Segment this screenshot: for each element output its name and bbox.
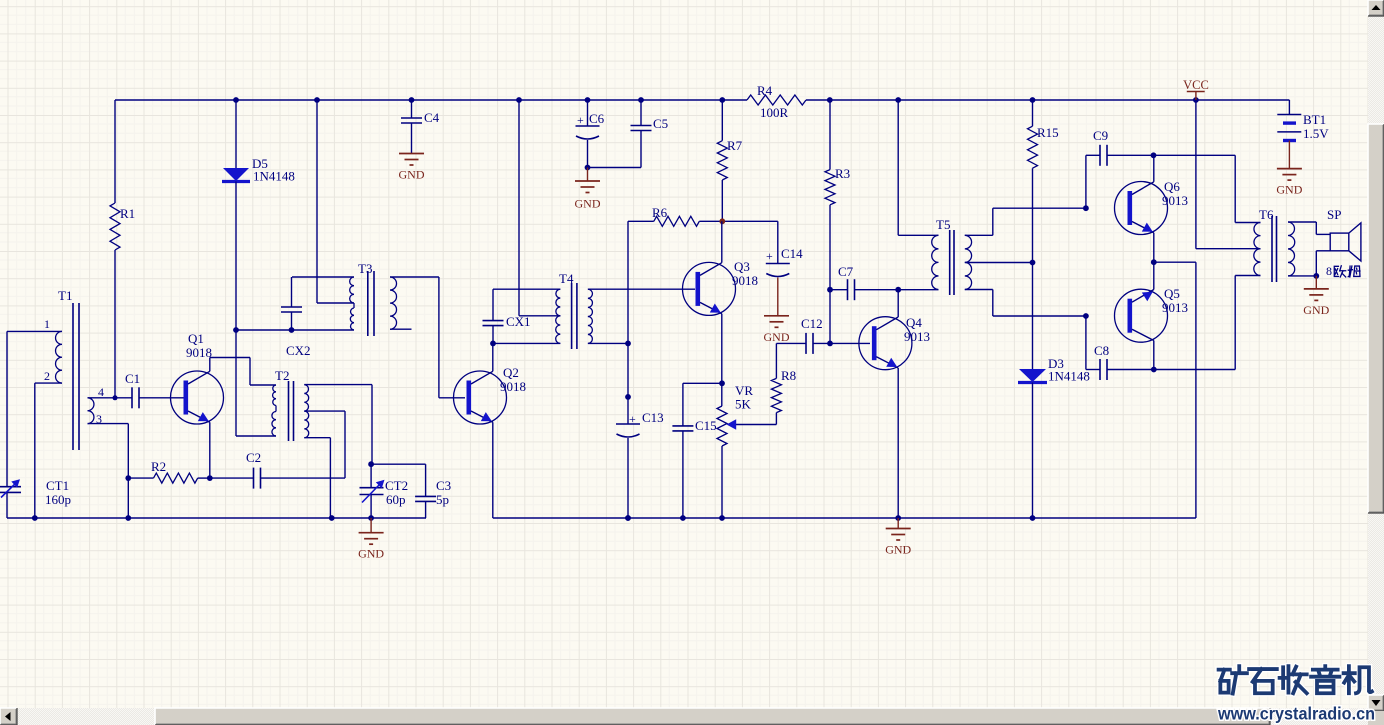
svg-text:Q1: Q1 bbox=[188, 331, 204, 346]
wire R3 to C7 node bbox=[829, 205, 831, 290]
scrollbar down button bbox=[1368, 695, 1384, 711]
svg-text:C13: C13 bbox=[642, 410, 664, 425]
diode D5 bbox=[223, 168, 249, 181]
wire R15 to D3 bbox=[1032, 168, 1034, 369]
watermark big text bbox=[1219, 666, 1247, 693]
capacitor C6 bbox=[587, 100, 589, 126]
transformer T1 bbox=[72, 303, 74, 450]
svg-text:Q2: Q2 bbox=[503, 365, 519, 380]
transformer T5 bbox=[949, 230, 951, 295]
node Q3 collector bias junction (dark red) bbox=[719, 218, 725, 224]
potentiometer VR bbox=[717, 406, 727, 446]
svg-text:GND: GND bbox=[399, 168, 425, 182]
capacitor CT1 (variable) bbox=[0, 486, 21, 488]
svg-text:C9: C9 bbox=[1093, 128, 1108, 143]
wire rail corner to R1 bbox=[114, 100, 116, 203]
svg-text:+: + bbox=[629, 412, 636, 426]
svg-text:GND: GND bbox=[358, 547, 384, 561]
svg-text:9013: 9013 bbox=[1162, 300, 1188, 315]
node Q6 base junction bbox=[1083, 205, 1089, 211]
speaker SP bbox=[1330, 233, 1349, 251]
svg-text:4: 4 bbox=[98, 385, 104, 399]
wire C7 node to Q4 base node bbox=[829, 290, 831, 344]
resistor R7 bbox=[717, 141, 727, 180]
wire C4 to ground bbox=[411, 123, 413, 154]
ground GND under C4 bbox=[399, 153, 424, 155]
node C7 junctions bbox=[827, 287, 833, 293]
wire D5 to CX2 bus bbox=[235, 182, 237, 331]
svg-text:CT2: CT2 bbox=[385, 478, 408, 493]
wire rail drop to T5 left top bbox=[897, 100, 899, 235]
wire Q5 emitter up bbox=[1153, 262, 1155, 289]
wire R3 node to C7 bbox=[830, 289, 848, 291]
wire R6 right to node bbox=[699, 220, 722, 222]
wire Q4 emitter down to bus bbox=[897, 368, 899, 518]
svg-text:GND: GND bbox=[885, 543, 911, 557]
capacitor CX2 bbox=[291, 277, 293, 307]
ground GND under CT2 bbox=[359, 532, 384, 534]
wire T6 right top to speaker bbox=[1288, 221, 1316, 223]
wire T5 center tap to R15 line bbox=[965, 262, 1033, 264]
svg-text:1: 1 bbox=[44, 317, 50, 331]
wire T1 pin2 bbox=[35, 382, 62, 384]
wire Q3 collector up bbox=[721, 221, 723, 262]
resistor R8 bbox=[771, 378, 781, 412]
capacitor C12 bbox=[805, 333, 807, 354]
wire C8 left up to Q5 base node bbox=[1086, 369, 1100, 371]
wire bottom bus (right segment) bbox=[493, 517, 1196, 519]
resistor R15 bbox=[1028, 126, 1038, 168]
svg-text:R8: R8 bbox=[781, 368, 796, 383]
wire bus ground stem bbox=[897, 518, 899, 529]
node C15 tap junction bbox=[719, 380, 725, 386]
wire CT2 node to ground bbox=[370, 518, 372, 533]
node R2 junctions bbox=[125, 475, 131, 481]
wire CT2 node to C3 bbox=[371, 463, 426, 465]
svg-text:www.crystalradio.cn: www.crystalradio.cn bbox=[1217, 704, 1375, 724]
wire T5 right top to Q6 base bbox=[965, 234, 993, 236]
capacitor C3 bbox=[425, 464, 427, 496]
node R1 junction on pin4 wire bbox=[113, 395, 118, 400]
ground GND under C6 bbox=[575, 180, 600, 182]
wire T1 pin1 bbox=[7, 330, 62, 332]
resistor R1 bbox=[110, 203, 120, 250]
capacitor C2 bbox=[253, 468, 255, 489]
wire rail to R7 bbox=[721, 100, 723, 141]
wire mid node to bus drop bbox=[1154, 261, 1196, 263]
svg-text:C15: C15 bbox=[695, 418, 717, 433]
capacitor CX1 bbox=[492, 289, 494, 320]
transistor Q4 bbox=[859, 317, 912, 370]
svg-text:160p: 160p bbox=[45, 492, 71, 507]
capacitor C13 bbox=[616, 423, 640, 425]
svg-text:GND: GND bbox=[764, 330, 790, 344]
svg-text:T3: T3 bbox=[358, 261, 372, 276]
wire T2 right top to CT2 node bbox=[304, 384, 372, 386]
svg-text:+: + bbox=[577, 113, 584, 127]
svg-text:Q3: Q3 bbox=[734, 259, 750, 274]
wire CX2 bus bbox=[236, 329, 354, 331]
node speaker ground junction bbox=[1313, 273, 1319, 279]
svg-text:C4: C4 bbox=[424, 110, 440, 125]
svg-text:5K: 5K bbox=[735, 397, 752, 412]
wire T4 right bottom to C13 line bbox=[588, 342, 628, 344]
wire Q4 collector up bbox=[897, 290, 899, 317]
transformer T2 bbox=[288, 381, 290, 441]
node push-pull mid junction bbox=[1151, 259, 1157, 265]
wire T3 right bottom pin bbox=[390, 328, 412, 330]
svg-text:BT1: BT1 bbox=[1303, 112, 1326, 127]
wire C14 to ground bbox=[777, 278, 779, 316]
ground GND under speaker bbox=[1304, 288, 1329, 290]
capacitor C7 bbox=[847, 279, 849, 300]
node C6 ground junction bbox=[585, 165, 591, 171]
wire T3 left top pin bbox=[292, 276, 354, 278]
node Q4 base junction bbox=[827, 341, 833, 347]
capacitor C5 bbox=[640, 100, 642, 126]
wire rail to D5 bbox=[235, 100, 237, 168]
node left bus junctions bbox=[32, 515, 38, 521]
svg-text:9018: 9018 bbox=[732, 273, 758, 288]
scrollbar corner bbox=[1368, 711, 1384, 725]
capacitor C15 bbox=[682, 383, 684, 426]
transistor Q3 bbox=[683, 262, 736, 315]
svg-text:C6: C6 bbox=[589, 111, 605, 126]
transistor Q1 bbox=[171, 371, 224, 424]
wire T6 right bottom pin bbox=[1288, 275, 1316, 277]
svg-text:R1: R1 bbox=[120, 206, 135, 221]
node rail junction dots bbox=[233, 97, 239, 103]
wire C7 to Q4 collector node bbox=[855, 289, 899, 291]
svg-text:9013: 9013 bbox=[904, 329, 930, 344]
svg-text:R2: R2 bbox=[151, 459, 166, 474]
wire C1 to Q1 base bbox=[139, 397, 184, 399]
capacitor C9 bbox=[1099, 145, 1101, 166]
resistor R6 bbox=[654, 216, 700, 226]
svg-text:60p: 60p bbox=[386, 492, 406, 507]
wire top power rail (right of R4) bbox=[806, 99, 1289, 101]
svg-text:CX1: CX1 bbox=[506, 314, 531, 329]
wire C9 left down to Q6 base node bbox=[1086, 154, 1100, 156]
wire VR wiper to R8 bbox=[775, 413, 777, 425]
svg-text:R4: R4 bbox=[757, 83, 773, 98]
svg-text:9013: 9013 bbox=[1162, 193, 1188, 208]
wire VR to bus bbox=[721, 446, 723, 518]
svg-text:Q6: Q6 bbox=[1164, 179, 1180, 194]
svg-text:2: 2 bbox=[44, 369, 50, 383]
ground GND on bottom bus bbox=[886, 528, 911, 530]
wire T3 right top pin to Q2 base drop bbox=[390, 276, 439, 278]
wire C13 to bottom bus bbox=[627, 438, 629, 518]
wire Q3 emitter down to VR bbox=[721, 314, 723, 406]
capacitor C1 bbox=[131, 387, 133, 408]
wire R6 branch down to C13 bbox=[627, 221, 629, 424]
node center tap junction bbox=[1030, 260, 1036, 266]
wire D3 to bus bbox=[1032, 383, 1034, 519]
scrollbar left button bbox=[0, 708, 17, 725]
svg-text:T4: T4 bbox=[559, 271, 574, 286]
diode D3 bbox=[1019, 369, 1046, 382]
capacitor C8 bbox=[1099, 359, 1101, 380]
node CT2 top junction bbox=[368, 461, 374, 467]
wire C2 to T2 mid tap bbox=[261, 477, 346, 479]
svg-text:GND: GND bbox=[1276, 183, 1302, 197]
ground GND under C14 bbox=[764, 315, 789, 317]
svg-text:R3: R3 bbox=[835, 166, 850, 181]
svg-text:C1: C1 bbox=[125, 371, 140, 386]
wire bottom bus (left segment) bbox=[7, 517, 426, 519]
node Q5 base junction bbox=[1083, 313, 1089, 319]
svg-text:R7: R7 bbox=[727, 138, 743, 153]
scrollbar horizontal thumb bbox=[155, 708, 1270, 725]
wire T4 right top to Q3 base bbox=[588, 288, 695, 290]
svg-text:T2: T2 bbox=[275, 368, 289, 383]
wire rail to R3 bbox=[829, 100, 831, 170]
wire CX1 bottom to T4 left bottom bbox=[493, 342, 560, 344]
wire VCC down to T6 center tap bbox=[1195, 100, 1197, 249]
wire node to Q4 base bbox=[830, 342, 870, 344]
wire T1 pin3 down to bus bbox=[127, 424, 129, 518]
svg-text:CX2: CX2 bbox=[286, 343, 311, 358]
svg-text:Q4: Q4 bbox=[906, 315, 922, 330]
svg-text:T5: T5 bbox=[936, 217, 950, 232]
svg-text:C7: C7 bbox=[838, 264, 854, 279]
svg-text:+: + bbox=[766, 249, 773, 263]
transformer T4 bbox=[571, 283, 573, 349]
wire Q4 collector node to T5 left bottom bbox=[898, 289, 938, 291]
resistor R4 bbox=[747, 95, 806, 105]
svg-text:9018: 9018 bbox=[186, 345, 212, 360]
wire to speaker ground bbox=[1315, 276, 1317, 289]
wire C12 to Q4 base node bbox=[813, 342, 830, 344]
svg-text:R15: R15 bbox=[1037, 125, 1059, 140]
svg-text:1.5V: 1.5V bbox=[1303, 126, 1329, 141]
wire C9 right to Q6 collector node bbox=[1107, 154, 1154, 156]
wire CX1 top to T4 left top bbox=[493, 288, 560, 290]
svg-text:5p: 5p bbox=[436, 492, 449, 507]
svg-text:C12: C12 bbox=[801, 316, 823, 331]
wire Q1 emitter down to R2 node bbox=[209, 422, 211, 478]
wire emitter node to C2 bbox=[210, 477, 254, 479]
node Q6 collector junction bbox=[1151, 152, 1157, 158]
wire T5 right bottom to Q5 base bbox=[965, 289, 993, 291]
transistor Q6 bbox=[1115, 182, 1168, 235]
wire T1 pin1 down to CT1 bbox=[6, 331, 8, 486]
wire R1 to T1 pin4 node bbox=[114, 250, 116, 398]
svg-text:R6: R6 bbox=[652, 205, 668, 220]
node Q5 collector junction bbox=[1151, 367, 1157, 373]
wiper of VR bbox=[734, 424, 776, 426]
capacitor C4 bbox=[411, 100, 413, 118]
battery BT1 bbox=[1277, 114, 1301, 116]
horizontal scrollbar bbox=[0, 708, 1368, 725]
svg-text:VCC: VCC bbox=[1183, 78, 1209, 92]
wire BT1 to ground bbox=[1288, 141, 1290, 169]
wire Q6 collector up bbox=[1153, 155, 1155, 182]
wire T1 pin3 bbox=[88, 423, 129, 425]
wire rail drop to T4 mid tap bbox=[518, 100, 520, 316]
wire R8 top to C12 line bbox=[775, 343, 777, 378]
transformer T6 bbox=[1271, 216, 1273, 282]
wire R2 to emitter node bbox=[198, 477, 210, 479]
node CX2 bus junctions bbox=[233, 327, 239, 333]
wire Q5 collector down bbox=[1153, 341, 1155, 370]
wire speaker bottom to T6 right bottom bbox=[1316, 250, 1330, 252]
svg-text:GND: GND bbox=[575, 197, 601, 211]
svg-text:C8: C8 bbox=[1094, 343, 1109, 358]
wire T2 right mid to C2 bbox=[304, 410, 345, 412]
wire pin3 line to R2 bbox=[128, 477, 153, 479]
wire T2 right bottom to bus bbox=[304, 437, 330, 439]
wire C8 right to T6 bottom bbox=[1107, 369, 1154, 371]
svg-text:1N4148: 1N4148 bbox=[253, 169, 295, 184]
resistor R2 bbox=[154, 473, 198, 483]
wire D5 line down to T2 bottom bbox=[235, 330, 237, 436]
wire C15 tap bbox=[683, 382, 722, 384]
wire T1 pin2 down to bus bbox=[34, 383, 36, 518]
transistor Q2 bbox=[454, 371, 507, 424]
svg-text:100R: 100R bbox=[760, 105, 789, 120]
wire C6 node to ground bbox=[587, 168, 589, 182]
svg-text:C14: C14 bbox=[781, 246, 803, 261]
vertical scrollbar bbox=[1368, 0, 1384, 725]
svg-text:Q5: Q5 bbox=[1164, 286, 1180, 301]
svg-text:1N4148: 1N4148 bbox=[1048, 369, 1090, 384]
wire Q2 emitter down to bus bbox=[492, 422, 494, 518]
svg-text:T1: T1 bbox=[58, 288, 72, 303]
node right bus junctions bbox=[625, 515, 631, 521]
wire Q2 collector up to CX1 node bbox=[492, 343, 494, 371]
wire Q6 collector node to T6 top bbox=[1154, 154, 1236, 156]
scrollbar up button bbox=[1368, 0, 1384, 16]
svg-text:CT1: CT1 bbox=[46, 478, 69, 493]
svg-text:9018: 9018 bbox=[500, 379, 526, 394]
svg-text:SP: SP bbox=[1327, 207, 1341, 222]
svg-text:C2: C2 bbox=[246, 450, 261, 465]
wire rail to BT1 bbox=[1288, 100, 1290, 115]
wire R7 to Q3 collector node bbox=[721, 180, 723, 221]
svg-text:T6: T6 bbox=[1259, 207, 1274, 222]
resistor R3 bbox=[825, 170, 835, 205]
wire Q6 emitter down bbox=[1153, 233, 1155, 262]
capacitor C14 bbox=[777, 221, 779, 263]
wire R6 left to C13 line bbox=[628, 220, 654, 222]
ground GND under BT1 bbox=[1277, 168, 1302, 170]
wire Q1 collector staircase to T2 bbox=[209, 358, 211, 372]
svg-text:C3: C3 bbox=[436, 478, 451, 493]
node CX1 bottom junction bbox=[490, 341, 496, 347]
wire top power rail (left of R4) bbox=[115, 99, 747, 101]
wire T3 top drop to Q2 base bbox=[438, 277, 440, 398]
wire T1 pin4 to C1 bbox=[88, 397, 133, 399]
capacitor CT2 (variable) bbox=[370, 464, 372, 488]
node C13 line junctions bbox=[625, 341, 631, 347]
scrollbar vertical thumb bbox=[1368, 124, 1384, 513]
wire C6-C5 bottom link bbox=[588, 167, 642, 169]
svg-text:GND: GND bbox=[1303, 303, 1329, 317]
wire rail drop to T3 mid tap bbox=[316, 100, 318, 303]
transformer T3 bbox=[367, 271, 369, 336]
wire rail to R15 bbox=[1032, 100, 1034, 126]
svg-text:C5: C5 bbox=[653, 116, 668, 131]
wire node to C14 bbox=[722, 220, 778, 222]
svg-text:8: 8 bbox=[1326, 264, 1332, 278]
transistor Q5 bbox=[1115, 289, 1168, 342]
